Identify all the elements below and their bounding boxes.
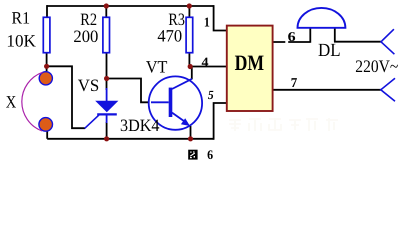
svg-text:5: 5 [208,88,214,102]
wire: emitter lead down to bottom rail [190,126,192,139]
wire: bell right leg to top plug [334,28,381,42]
svg-text:3DK4: 3DK4 [120,116,160,135]
wire: R3 bottom lead [188,53,190,67]
wire: bottom rail [47,138,213,140]
svg-text:DM: DM [235,50,265,75]
svg-text:VS: VS [78,76,100,95]
socket X terminal bottom [39,118,53,132]
svg-text:VT: VT [146,57,168,76]
svg-text:220V~: 220V~ [355,56,398,76]
plug prongs bottom (220V) [381,78,395,101]
wire: bottom rail up to DM pin 5 [214,103,227,140]
emitter diagonal with arrow [172,113,186,123]
socket X arc [22,72,43,131]
svg-text:R1: R1 [12,8,31,27]
svg-text:200: 200 [73,27,98,46]
junction dot below R1 [44,64,49,69]
svg-text:4: 4 [202,54,209,69]
watermark 实用电子制作 (very faint) [229,118,338,131]
plug prongs top (220V) [381,29,394,54]
wire: collector lead up to pin-4 wire [191,67,193,80]
wire: VS node to transistor base [107,79,152,103]
svg-text:X: X [6,93,17,112]
bell DL [298,8,346,28]
svg-text:1: 1 [204,14,210,29]
wire: DM pin 6 to bell left leg [273,28,310,43]
base lead [151,101,169,103]
junction dot above R3 [187,3,192,8]
wire: R2 bottom lead to VS anode node [106,53,108,90]
socket X terminal top [39,72,52,85]
wire: top rail down to DM pin 1 [214,5,227,30]
svg-text:6: 6 [288,29,296,44]
junction dot emitter rail [188,136,193,141]
junction dot VS anode [104,76,109,81]
wire: node to DM pin 4 [189,66,226,68]
svg-text:7: 7 [291,75,298,90]
DM module box [227,26,273,111]
wire: VS cathode to bottom rail [106,122,108,139]
svg-text:470: 470 [157,27,182,46]
junction dot above R2 [104,3,109,8]
svg-text:DL: DL [318,40,341,61]
svg-text:6: 6 [207,147,213,162]
resistor R1 [43,17,50,52]
wire: R1 bottom lead to X top terminal [46,53,48,73]
thyristor VS [85,88,118,128]
svg-text:10K: 10K [6,32,36,51]
caption 图 (hand drawn) [188,150,197,160]
collector diagonal [172,79,192,89]
junction dot below R3 [188,64,193,69]
wire: DM pin 7 to bottom plug [273,89,381,91]
base bar [169,88,173,117]
wire: R1 top lead [46,5,48,17]
wire: R3 top lead [188,5,190,17]
junction dot VS cathode rail [104,136,109,141]
transistor VT (3DK4) [149,76,202,129]
wire: X bottom terminal to bottom rail [46,131,48,139]
wire: branch from node to thyristor gate (down, right) [47,66,85,128]
wire: R2 top lead [105,5,107,17]
resistor R3 [186,17,193,52]
wire: top rail [47,5,214,7]
resistor R2 [103,17,110,52]
